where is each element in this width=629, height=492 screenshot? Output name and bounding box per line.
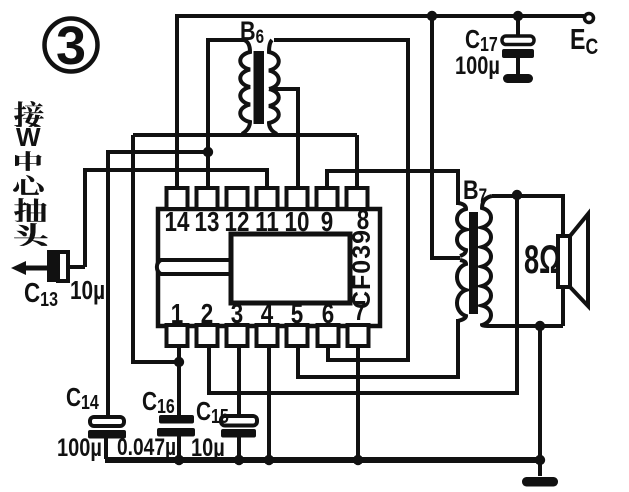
IC pin 2 stub bbox=[197, 325, 218, 346]
wire: pin 6 to B6 secondary top bbox=[274, 40, 408, 360]
wire: pin 2 to speaker top node bbox=[209, 195, 517, 393]
wire: pin 5 to B7 primary bottom bbox=[298, 319, 458, 377]
Chinese label char: 心 (heart/center) bbox=[13, 175, 44, 195]
svg-text:6: 6 bbox=[322, 299, 334, 330]
junction node (432,16) bbox=[427, 11, 437, 21]
junction node (540,326) bbox=[535, 321, 545, 331]
svg-text:3: 3 bbox=[231, 299, 243, 330]
wire: C13 to pin 11 bbox=[85, 170, 267, 267]
Chinese label char: 接 (connect) bbox=[14, 101, 44, 127]
transformer B6 secondary winding lower half bbox=[269, 89, 279, 134]
wire: B6 bottom bus bbox=[133, 133, 357, 137]
capacitor C13 negative plate bbox=[47, 250, 56, 282]
svg-text:10µ: 10µ bbox=[191, 434, 225, 462]
svg-text:1: 1 bbox=[171, 299, 183, 330]
wire: B6 secondary tap to pin 10 bbox=[269, 89, 298, 190]
wire: pin 3 down to C15 bbox=[237, 345, 241, 417]
IC inner block bbox=[231, 234, 350, 303]
junction node (208,152) bbox=[203, 147, 213, 157]
transformer B7 primary winding lower half bbox=[457, 260, 466, 321]
transformer B6 secondary winding upper half bbox=[269, 40, 279, 89]
svg-text:14: 14 bbox=[165, 207, 190, 238]
IC pin 4 stub bbox=[257, 325, 278, 346]
svg-text:5: 5 bbox=[291, 299, 303, 330]
Chinese label char: 头 (head/tap) bbox=[14, 223, 48, 246]
figure number 3 in circle bbox=[45, 19, 98, 72]
wire: bus left drop to pin 1 node bbox=[133, 135, 177, 362]
svg-text:3: 3 bbox=[56, 16, 86, 76]
svg-text:4: 4 bbox=[261, 299, 273, 330]
IC pin 13 stub bbox=[197, 188, 218, 209]
svg-text:CF039: CF039 bbox=[348, 229, 376, 309]
IC pin 10 stub bbox=[287, 188, 308, 209]
IC pin 5 stub bbox=[287, 325, 308, 346]
wire: speaker bottom node to ground bbox=[538, 326, 542, 476]
wire: C14 to bottom rail corner bbox=[104, 437, 108, 459]
svg-text:8Ω: 8Ω bbox=[524, 238, 561, 282]
speaker voice coil bbox=[558, 236, 570, 287]
transformer B7 core bbox=[469, 212, 478, 314]
input arrow to W center tap bbox=[24, 266, 48, 271]
wire: top supply rail bbox=[175, 14, 584, 18]
wire: B7 secondary bottom to speaker bbox=[492, 324, 563, 328]
capacitor C15 positive plate bbox=[221, 416, 257, 426]
wire: B7 secondary top to speaker bbox=[492, 196, 563, 326]
transformer B6 primary winding bbox=[240, 40, 250, 134]
IC pin 1 stub bbox=[167, 325, 188, 346]
transformer B7 primary winding upper half bbox=[457, 203, 466, 256]
wire: top rail to B7 primary center tap bbox=[432, 16, 460, 258]
junction node (517,195) bbox=[512, 190, 522, 200]
svg-text:W: W bbox=[16, 122, 41, 152]
wire: pin 9 to B7 primary top bbox=[327, 171, 458, 205]
junction node (358,460) bbox=[353, 455, 363, 465]
IC U1 body bbox=[158, 209, 380, 326]
capacitor C16 plate bbox=[159, 415, 194, 424]
wire: C14 riser to pin 13 node bbox=[108, 152, 208, 418]
IC pin 12 stub bbox=[227, 188, 248, 209]
wire: bus right drop to pin 8 bbox=[355, 135, 359, 190]
svg-text:9: 9 bbox=[321, 207, 333, 238]
ground symbol bottom right bbox=[522, 477, 558, 487]
junction node (269,460) bbox=[264, 455, 274, 465]
IC pin 7 stub bbox=[348, 325, 369, 346]
svg-text:11: 11 bbox=[255, 207, 279, 238]
IC pin 14 stub bbox=[167, 188, 188, 209]
capacitor C14 positive plate bbox=[90, 417, 124, 426]
Chinese label char: 中 (center) bbox=[15, 151, 42, 171]
svg-text:12: 12 bbox=[225, 207, 250, 238]
Chinese label char: 抽 (tap) bbox=[14, 198, 47, 222]
wire: bottom ground rail bbox=[105, 457, 540, 463]
capacitor C14 negative plate bbox=[88, 430, 126, 439]
svg-text:100µ: 100µ bbox=[57, 434, 102, 462]
transformer B7 secondary winding bbox=[482, 196, 492, 326]
power terminal Ec circle bbox=[585, 14, 594, 23]
transformer B6 core bbox=[254, 51, 265, 124]
junction node (239,460) bbox=[234, 455, 244, 465]
wire: pin 14 to top rail bbox=[175, 16, 179, 190]
wire: C16 to bottom rail bbox=[177, 436, 181, 461]
IC pin-1 notch slot bbox=[157, 260, 231, 274]
capacitor C16 plate bbox=[157, 428, 195, 437]
junction node (179,460) bbox=[174, 455, 184, 465]
IC pin 8 stub bbox=[347, 188, 368, 209]
wire: C13 to riser bbox=[68, 265, 85, 269]
IC pin 3 stub bbox=[227, 325, 248, 346]
wire: B6 primary top to pin 13 bbox=[208, 40, 244, 190]
junction node (540,460) bbox=[535, 455, 545, 465]
svg-text:13: 13 bbox=[195, 207, 220, 238]
wire: C17 top lead bbox=[516, 16, 520, 37]
junction node (179,362) bbox=[174, 357, 184, 367]
ground bar under C17 bbox=[503, 74, 533, 83]
svg-text:0.047µ: 0.047µ bbox=[117, 433, 176, 461]
svg-text:10µ: 10µ bbox=[70, 276, 105, 305]
svg-text:10: 10 bbox=[285, 207, 310, 238]
capacitor C15 negative plate bbox=[221, 429, 256, 438]
wire: pin 7 to bottom rail bbox=[356, 345, 360, 461]
speaker cone bbox=[570, 214, 588, 306]
wire: C15 to bottom rail bbox=[237, 436, 241, 461]
capacitor C13 positive plate bbox=[58, 252, 68, 281]
wire: pin 4 to bottom rail bbox=[267, 345, 271, 461]
IC pin 6 stub bbox=[318, 325, 339, 346]
IC pin 11 stub bbox=[257, 188, 278, 209]
svg-text:2: 2 bbox=[201, 299, 213, 330]
capacitor C17 positive plate bbox=[502, 36, 534, 45]
wire: C17 bottom lead to ground bbox=[516, 57, 520, 75]
wire: pin 1 down to C16 bbox=[177, 345, 181, 416]
junction node (518,16) bbox=[513, 11, 523, 21]
capacitor C17 negative plate bbox=[502, 49, 534, 58]
IC pin 9 stub bbox=[317, 188, 338, 209]
svg-text:100µ: 100µ bbox=[455, 52, 500, 80]
